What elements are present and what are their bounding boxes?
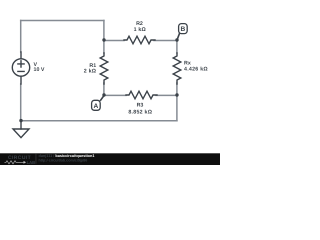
- svg-text:danj111 / basiccircuitquestion: danj111 / basiccircuitquestion1: [39, 154, 95, 158]
- svg-text:2 kΩ: 2 kΩ: [84, 69, 97, 75]
- svg-text:B: B: [181, 26, 186, 33]
- svg-text:R3: R3: [137, 102, 144, 108]
- svg-text:1 kΩ: 1 kΩ: [134, 27, 147, 33]
- svg-text:A: A: [94, 103, 99, 110]
- svg-text:4.426 kΩ: 4.426 kΩ: [184, 66, 208, 72]
- svg-text:8.852 kΩ: 8.852 kΩ: [128, 109, 152, 115]
- svg-text:htlp:/·circuitlab.com/c/9jp86: htlp:/·circuitlab.com/c/9jp86: [39, 158, 88, 162]
- svg-text:10 V: 10 V: [34, 67, 45, 73]
- svg-text:LAB: LAB: [27, 160, 36, 165]
